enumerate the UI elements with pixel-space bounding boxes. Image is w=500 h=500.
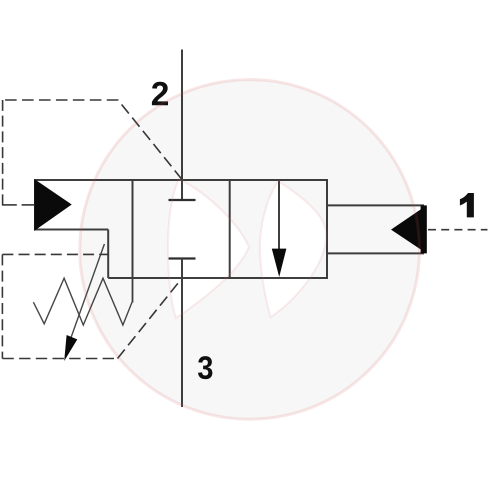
watermark left petal rim	[168, 179, 249, 318]
pilot line upper dashed	[2, 100, 182, 180]
label port 1	[460, 193, 474, 217]
spring adjust arrow shaft	[71, 244, 105, 339]
pilot line to inlet dash b	[22, 204, 35, 206]
spring	[33, 278, 132, 325]
right outlet rail top	[327, 204, 424, 206]
pilot line to inlet dash a	[2, 204, 17, 206]
label port 3	[198, 356, 212, 379]
left channel bottom rail	[35, 229, 109, 231]
watermark logo circle	[80, 80, 420, 420]
pilot box left edge dashed	[2, 100, 4, 205]
wire port 3	[181, 259, 183, 408]
watermark circle rim	[80, 80, 420, 420]
spring box bottom dashed	[2, 358, 116, 360]
outlet flow triangle	[391, 205, 427, 253]
watermark right petal rim	[260, 181, 326, 317]
right outlet rail bottom	[327, 252, 424, 254]
spring box top dashed	[2, 253, 108, 255]
label port 2	[152, 82, 168, 105]
spring box left dashed	[1, 254, 3, 358]
valve body envelope	[133, 180, 328, 278]
wire port 2	[181, 50, 183, 201]
bottom edge extension	[108, 277, 132, 279]
port 1 dashed stub	[428, 229, 488, 231]
flow arrow down head	[272, 249, 287, 277]
outlet triangle base bar	[421, 205, 427, 253]
spring anchor line	[132, 278, 134, 303]
blocked port tick top	[169, 199, 196, 201]
spring adjust arrow head	[64, 335, 77, 361]
flow arrow down (right position) shaft	[278, 180, 280, 252]
blocked port tick bottom	[169, 257, 196, 259]
position divider	[229, 180, 231, 278]
spring box diagonal dashed	[118, 278, 183, 358]
left channel top rail	[35, 179, 133, 181]
inlet flow triangle	[35, 180, 71, 229]
left step vertical	[107, 230, 109, 279]
